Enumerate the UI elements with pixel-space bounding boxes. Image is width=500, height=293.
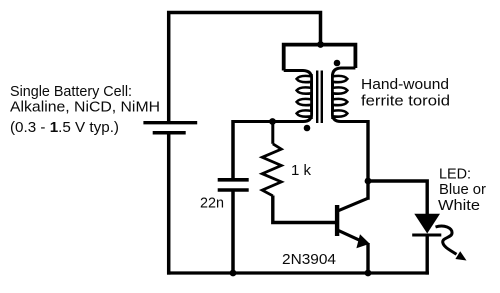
transformer T1 phasing dot primary xyxy=(304,125,311,132)
junction dot: capacitor bottom rail xyxy=(230,270,237,277)
junction dot: collector LED tee xyxy=(365,178,372,185)
battery BT1 short plate xyxy=(153,131,186,135)
LED D1 squiggle arrowhead xyxy=(455,251,466,260)
resistor R1 bottom lead and wire to base xyxy=(273,196,336,223)
transformer T1 secondary spine line xyxy=(331,74,334,119)
transformer T1 phasing dot secondary xyxy=(334,60,341,67)
transistor Q1 emitter arrowhead xyxy=(356,234,369,248)
svg-text:(0.3 - 1.5 V typ.): (0.3 - 1.5 V typ.) xyxy=(10,119,119,136)
transformer T1 secondary petal 4 xyxy=(333,110,348,116)
resistor R1 zigzag body xyxy=(262,144,281,196)
transistor Q1 emitter stroke xyxy=(338,230,366,243)
svg-text:Blue or: Blue or xyxy=(439,181,486,198)
transistor Q1 collector stroke xyxy=(338,198,368,211)
transformer T1 core line right xyxy=(321,71,323,124)
transformer T1 top connecting bar xyxy=(284,45,356,71)
transformer T1 core line left xyxy=(316,71,318,124)
battery BT1 long plate xyxy=(143,121,197,124)
wire: battery negative down left rail xyxy=(167,134,171,275)
transformer T1 primary petal 1 xyxy=(297,76,312,82)
transformer T1 primary spine line xyxy=(310,74,313,119)
capacitor C1 top plate xyxy=(218,178,249,182)
wire: transformer secondary down to collector xyxy=(366,120,369,200)
transistor Q1 base bar xyxy=(335,205,339,236)
junction dot: emitter bottom rail xyxy=(365,270,372,277)
transformer T1 secondary winding spine and wire to collector xyxy=(333,68,369,122)
wire: battery positive up, top rail, down to transformer center tap xyxy=(169,13,321,122)
junction dot: top center tap xyxy=(317,41,324,48)
svg-text:Hand-wound: Hand-wound xyxy=(361,76,449,93)
capacitor C1 bottom plate xyxy=(218,188,249,192)
svg-text:White: White xyxy=(438,197,480,214)
svg-text:LED:: LED: xyxy=(439,166,471,183)
transformer T1 primary petal 3 xyxy=(297,99,312,105)
transformer T1 primary petal 4 xyxy=(297,110,312,116)
transformer T1 primary winding spine and wire to node A xyxy=(233,71,312,122)
wire: bottom rail xyxy=(167,271,429,274)
resistor R1 top lead xyxy=(271,120,274,144)
svg-text:Single Battery Cell:: Single Battery Cell: xyxy=(10,83,132,100)
LED D1 cathode bar xyxy=(412,234,441,237)
wire: emitter to bottom rail xyxy=(366,243,369,273)
svg-text:1 k: 1 k xyxy=(291,162,311,179)
transformer T1 primary petal 2 xyxy=(297,87,312,93)
wire: LED branch from tee to anode xyxy=(367,181,428,215)
LED D1 triangle xyxy=(414,214,440,234)
svg-text:22n: 22n xyxy=(200,195,224,212)
svg-text:2N3904: 2N3904 xyxy=(282,251,336,268)
svg-text:Alkaline, NiCD, NiMH: Alkaline, NiCD, NiMH xyxy=(10,99,160,116)
LED D1 light squiggle arrow xyxy=(436,226,457,254)
transformer T1 secondary petal 2 xyxy=(333,87,348,93)
wire: LED cathode to bottom rail xyxy=(426,236,429,275)
transformer T1 secondary petal 3 xyxy=(333,99,348,105)
transformer T1 secondary petal 1 xyxy=(333,76,348,82)
wire: capacitor to bottom rail xyxy=(231,192,235,274)
junction dot: node A resistor tap xyxy=(269,118,276,125)
wire: node A down to capacitor xyxy=(231,120,235,179)
svg-text:ferrite toroid: ferrite toroid xyxy=(361,93,450,110)
